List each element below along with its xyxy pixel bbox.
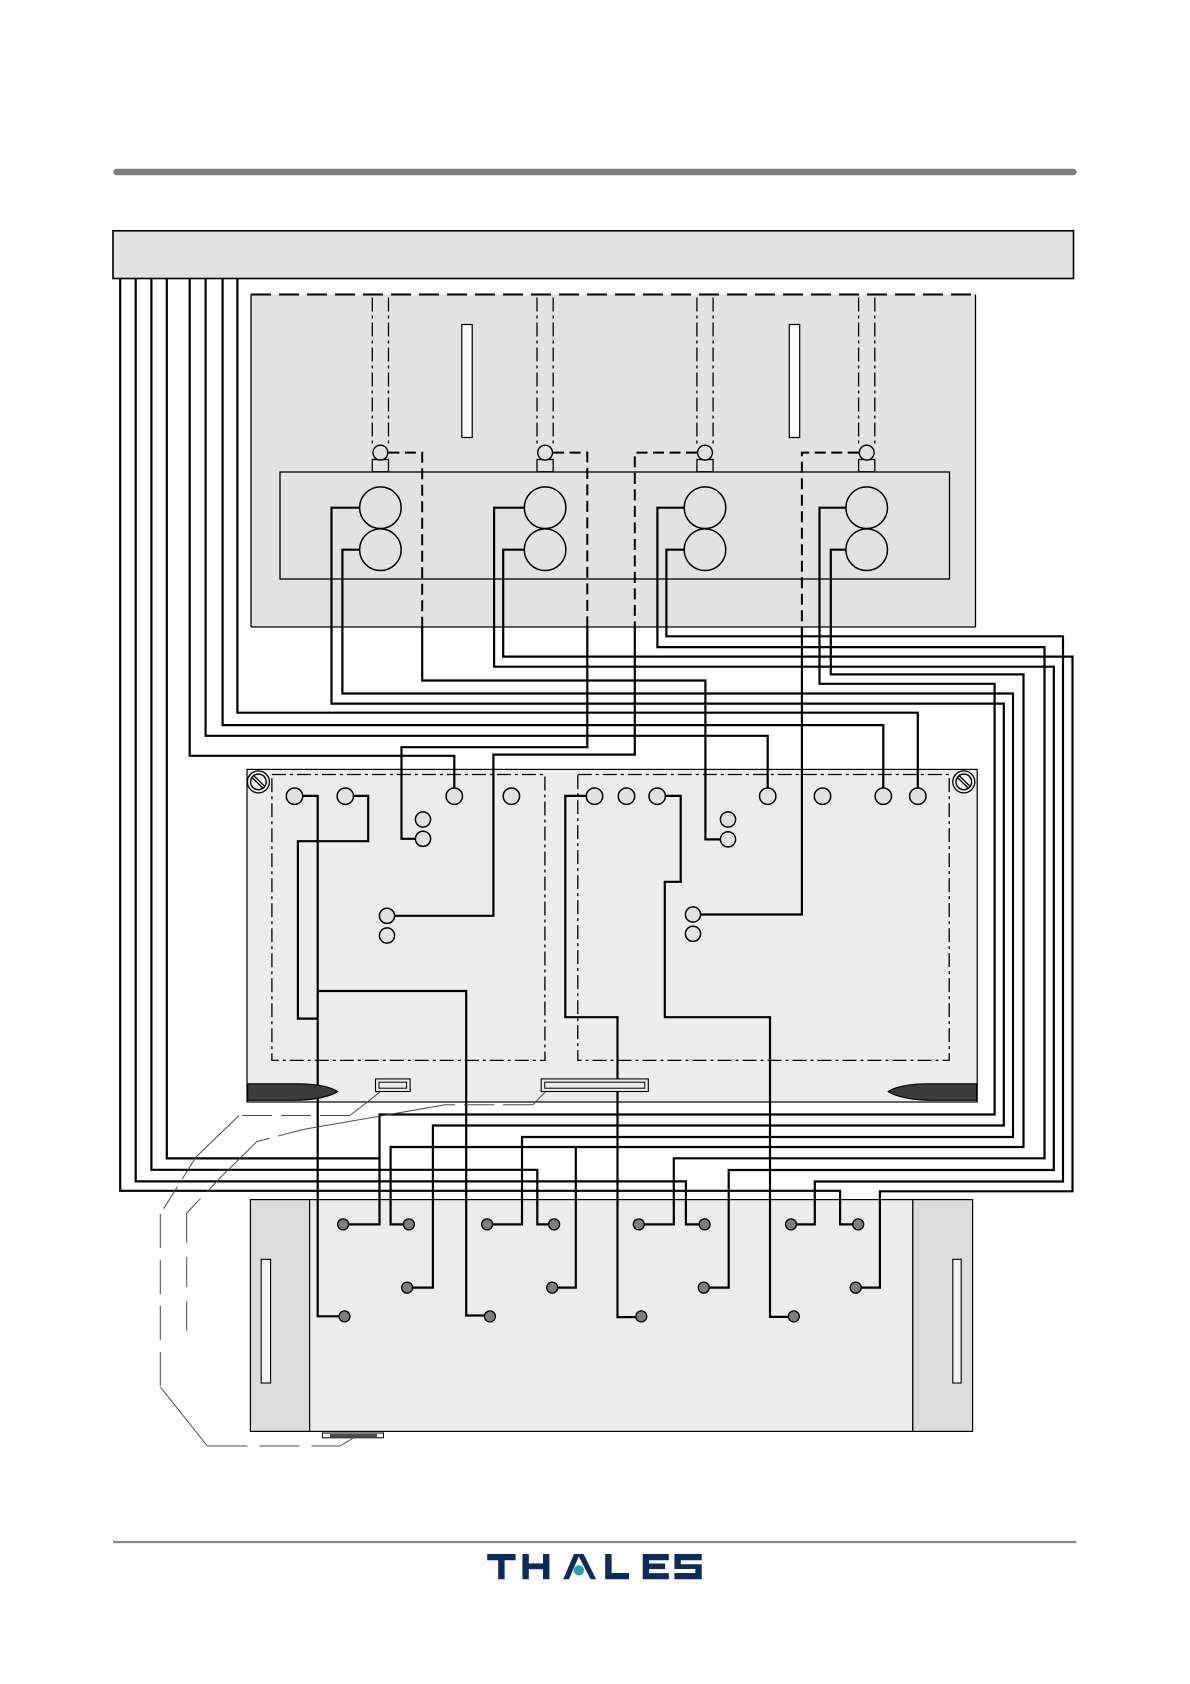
top panel body bbox=[251, 295, 976, 628]
relay circle RA upper bbox=[720, 812, 735, 827]
wire detector pair2 upper to contact Cm bbox=[494, 508, 1054, 1288]
terminal L1 bbox=[286, 788, 302, 804]
tube link 3 dashed run bbox=[635, 453, 697, 627]
terminal R6 bbox=[875, 788, 891, 804]
tube link 3 solid run to relay circle bbox=[394, 627, 635, 916]
contact D3 bbox=[788, 1311, 799, 1322]
wire detector pair3 upper to contact C1 bbox=[644, 508, 1044, 1225]
wire detector pair4 lower to contact A2 bbox=[391, 550, 1024, 1225]
contact Am bbox=[402, 1282, 413, 1293]
relay circle LA lower bbox=[415, 831, 430, 846]
contact Dm bbox=[850, 1282, 861, 1293]
terminal R7 bbox=[910, 788, 926, 804]
wire L2 duct to contact C2 bbox=[136, 279, 699, 1225]
screw top-left bbox=[247, 771, 269, 793]
relay circle RB upper bbox=[685, 907, 700, 922]
bottom panel foot strip bbox=[322, 1433, 383, 1438]
relay circle RB lower bbox=[685, 926, 700, 941]
screw top-right bbox=[953, 771, 975, 793]
wire detector pair2 lower to contact Dm bbox=[503, 550, 1072, 1288]
terminal R4 bbox=[760, 788, 776, 804]
detector tube 1 bbox=[372, 298, 388, 472]
contact Bm bbox=[547, 1282, 558, 1293]
contact C1 bbox=[633, 1219, 644, 1230]
tube circle 1 bbox=[373, 445, 388, 460]
detector pair 2 bbox=[524, 487, 566, 571]
terminal R5 bbox=[814, 788, 830, 804]
wire L7 duct to terminal R6 bbox=[223, 279, 884, 789]
tube link 2 dashed run bbox=[553, 453, 587, 627]
detector tube 3 bbox=[697, 298, 713, 472]
tube circle 2 bbox=[538, 445, 553, 460]
right sub-panel dash-dot border bbox=[578, 775, 949, 1061]
wire detector pair4 upper to contact A1 bbox=[349, 508, 995, 1225]
contact Cm bbox=[698, 1282, 709, 1293]
wire terminal R1 internal run bbox=[565, 796, 636, 1317]
wire L6 duct to terminal R4 bbox=[206, 279, 768, 789]
top panel dashed top border bbox=[251, 294, 976, 296]
contact B3 bbox=[484, 1311, 495, 1322]
detector pair 1 bbox=[360, 487, 402, 571]
left sub-panel dash-dot border bbox=[272, 775, 545, 1061]
bottom panel right column bbox=[913, 1200, 973, 1432]
tube link 4 dashed run bbox=[802, 453, 859, 627]
THALES logo bbox=[487, 1554, 702, 1579]
bottom panel left column bbox=[250, 1200, 309, 1432]
detector pair 3 bbox=[684, 487, 726, 571]
leader line from long slot bbox=[187, 1092, 545, 1340]
contact D1 bbox=[786, 1219, 797, 1230]
terminal R3 bbox=[649, 788, 665, 804]
terminal L2 bbox=[337, 788, 353, 804]
wire terminal R3 internal run bbox=[665, 796, 789, 1317]
wire detector pair3 lower to contact D1 bbox=[666, 550, 1063, 1225]
footer rule bbox=[113, 1541, 1076, 1543]
middle panel body bbox=[247, 769, 977, 1102]
wire detector pair1 lower to contact B1 bbox=[342, 550, 1013, 1225]
tube circle 4 bbox=[859, 445, 874, 460]
right lens bbox=[888, 1084, 976, 1101]
cable duct band bbox=[113, 231, 1074, 279]
terminal R1 bbox=[586, 788, 602, 804]
wire terminal L2 internal zigzag bbox=[298, 796, 368, 1019]
terminal L3 bbox=[446, 788, 462, 804]
contact C2 bbox=[699, 1219, 710, 1230]
bottom panel right slot bbox=[953, 1259, 961, 1383]
left lens bbox=[248, 1084, 338, 1101]
wire L1 duct to contact D2 bbox=[120, 279, 853, 1225]
contact A2 bbox=[403, 1219, 414, 1230]
wire internal branch to contact B3 bbox=[318, 991, 485, 1316]
tube link 1 solid run to relay circle bbox=[422, 627, 721, 839]
contact A3 bbox=[339, 1311, 350, 1322]
wire L4 duct to riser junction bbox=[167, 279, 380, 1159]
wire L8 duct to terminal R7 bbox=[237, 279, 917, 789]
relay circle LB lower bbox=[379, 928, 394, 943]
wire branch to contact Bm bbox=[558, 1147, 576, 1288]
detector tube 2 bbox=[537, 298, 553, 472]
detector tube 4 bbox=[859, 298, 875, 472]
leader line from small slot bbox=[160, 1092, 380, 1446]
bottom panel left slot bbox=[261, 1259, 270, 1383]
terminal L4 bbox=[503, 788, 519, 804]
bottom panel body bbox=[310, 1200, 913, 1432]
detector pair 4 bbox=[846, 487, 888, 571]
wire L5 duct to terminal L3 bbox=[190, 279, 455, 789]
spacer bar 2 bbox=[789, 325, 799, 438]
relay circle RA lower bbox=[720, 832, 735, 847]
wire terminal L1 internal run bbox=[302, 796, 339, 1316]
long slot bbox=[541, 1079, 648, 1092]
relay circle LB upper bbox=[379, 908, 394, 923]
contact A1 bbox=[338, 1219, 349, 1230]
relay circle LA upper bbox=[415, 812, 430, 827]
contact B1 bbox=[482, 1219, 493, 1230]
tube link 2 solid run to relay circle bbox=[402, 627, 588, 839]
contact D2 bbox=[853, 1219, 864, 1230]
tube link 4 solid run to relay circle bbox=[700, 627, 802, 915]
tube circle 3 bbox=[698, 445, 713, 460]
spacer bar 1 bbox=[462, 325, 472, 438]
detector strip bbox=[280, 472, 950, 579]
contact B2 bbox=[549, 1219, 560, 1230]
terminal R2 bbox=[618, 788, 634, 804]
contact C3 bbox=[636, 1311, 647, 1322]
small slot bbox=[376, 1079, 411, 1092]
top panel bottom border bbox=[251, 626, 976, 628]
top panel right border bbox=[975, 295, 977, 628]
tube link 1 dashed run bbox=[388, 453, 422, 627]
top horizontal rule bbox=[117, 169, 1074, 176]
top panel left border bbox=[250, 295, 252, 628]
wire detector pair1 upper to contact Am bbox=[332, 508, 1004, 1288]
wire L3 duct to contact B2 bbox=[151, 279, 548, 1225]
